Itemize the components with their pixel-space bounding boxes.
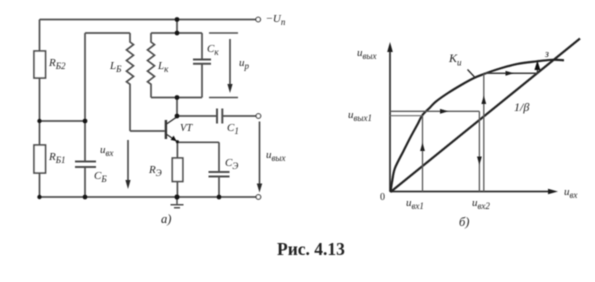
arrow on uвх1 vertical	[420, 143, 425, 152]
construction line A	[390, 110, 479, 112]
junction: CЭ / bottom rail	[217, 195, 222, 200]
wire: rail drop to tank	[176, 20, 178, 34]
terminal output bottom	[256, 195, 261, 200]
capacitor Cк plates	[193, 60, 211, 64]
wire: divider node horizontal	[40, 120, 86, 122]
junction: RЭ / ground	[174, 194, 179, 199]
svg-text:Lк: Lк	[157, 60, 169, 74]
junction: bottom rail left corner	[37, 195, 41, 199]
svg-text:C1: C1	[227, 122, 239, 136]
construction line B (uвых1 to curve)	[390, 115, 423, 117]
wire: emitter to CЭ	[177, 142, 219, 172]
wire: C1 to output terminal	[223, 115, 256, 117]
y axis	[389, 51, 391, 192]
inductor LБ zigzag	[127, 33, 134, 131]
wire: collector to C1	[177, 115, 217, 117]
wire: bottom ground rail	[40, 196, 256, 198]
svg-text:з: з	[544, 49, 549, 60]
wire: tank bottom	[151, 97, 202, 99]
resistor RБ2	[34, 51, 46, 78]
svg-text:Kи: Kи	[448, 51, 462, 67]
svg-text:uвх2: uвх2	[472, 197, 490, 211]
svg-text:RЭ: RЭ	[148, 164, 162, 178]
short vertical to з	[536, 63, 538, 73]
wire: RЭ to ground rail	[176, 182, 178, 198]
ground symbol	[171, 197, 184, 208]
svg-text:uвых: uвых	[357, 47, 377, 61]
svg-text:б): б)	[459, 215, 469, 229]
svg-text:uвых1: uвых1	[348, 109, 372, 123]
svg-text:uвх: uвх	[100, 144, 113, 158]
down arrow on that vertical	[477, 157, 482, 166]
arrow uвх	[127, 140, 129, 181]
junction: divider node right (base bias)	[83, 119, 88, 124]
wire: left vertical branch (RБ2/RБ1)	[39, 20, 41, 198]
svg-text:LБ: LБ	[109, 60, 122, 74]
junction: emitter node	[176, 140, 179, 143]
wire: top supply rail	[40, 19, 256, 21]
capacitor CЭ plates	[209, 172, 230, 177]
capacitor C1 plates	[217, 109, 222, 124]
bracket uр lines	[209, 33, 238, 98]
wire: CЭ to ground rail	[218, 177, 220, 198]
svg-text:RБ2: RБ2	[48, 57, 66, 71]
x axis	[390, 191, 549, 193]
junction: collector / C1 node	[175, 114, 180, 119]
construction line A2	[484, 72, 538, 74]
vertical uвх1	[422, 116, 424, 192]
inductor Lк zigzag	[148, 33, 155, 98]
wire: tank top	[151, 32, 202, 34]
up arrow on uвх2 vertical	[481, 96, 486, 105]
svg-text:CБ: CБ	[94, 170, 107, 184]
svg-text:CЭ: CЭ	[225, 157, 238, 171]
svg-text:Cк: Cк	[207, 43, 219, 57]
resistor RЭ	[172, 158, 183, 182]
junction: tank top node	[175, 31, 180, 36]
wire: CБ branch vertical	[84, 33, 86, 197]
svg-text:uвых: uвых	[266, 149, 286, 163]
arrow uр	[229, 39, 231, 85]
capacitor Cк branch	[201, 33, 203, 98]
svg-text:0: 0	[380, 192, 385, 203]
vertical from A corner down (to uвх2)	[478, 111, 480, 191]
resistor RБ1	[34, 145, 46, 173]
wire: node to LБ top	[85, 32, 130, 34]
junction: supply rail / tank feed	[175, 17, 180, 22]
junction: tank bottom node	[175, 95, 180, 100]
terminal output top	[256, 114, 261, 119]
svg-text:uвх: uвх	[564, 186, 577, 200]
svg-text:Рис. 4.13: Рис. 4.13	[277, 239, 345, 259]
arrow on line A	[440, 109, 449, 114]
junction: CБ / bottom rail	[83, 195, 88, 200]
transistor VT	[166, 117, 178, 142]
bold up arrow at з	[534, 61, 540, 71]
vertical uвх2 up to curve	[483, 74, 485, 192]
wire: emitter drop to RЭ	[176, 142, 178, 158]
svg-text:−Uп: −Uп	[266, 13, 286, 27]
wire: base run from LБ	[130, 130, 165, 132]
svg-text:1/β: 1/β	[514, 100, 529, 114]
arrow uвых	[259, 122, 261, 185]
capacitor CБ plates	[75, 162, 96, 168]
svg-text:uвх1: uвх1	[406, 197, 424, 211]
transistor emitter arrow	[171, 136, 177, 142]
junction: divider node left	[37, 119, 41, 123]
terminal -Uп	[256, 17, 261, 22]
svg-text:RБ1: RБ1	[48, 151, 66, 165]
svg-text:uр: uр	[239, 57, 250, 71]
leader line Kи	[468, 70, 476, 78]
arrow on line A2	[506, 71, 515, 76]
wire: collector drop	[176, 98, 178, 117]
line 1/beta	[391, 39, 581, 193]
svg-text:VT: VT	[180, 123, 193, 134]
svg-text:а): а)	[161, 212, 171, 226]
curve Kи	[391, 60, 565, 192]
